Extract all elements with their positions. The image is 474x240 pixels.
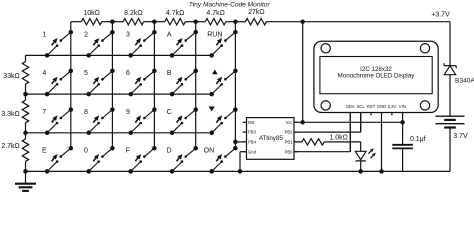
svg-text:GND: GND	[377, 104, 386, 109]
svg-text:A: A	[167, 32, 172, 39]
pin SCL	[357, 104, 366, 109]
pin Rst	[243, 120, 255, 125]
pin Vcc	[286, 120, 298, 125]
module OLED display outline	[314, 41, 438, 112]
wire SDA drop	[349, 113, 351, 152]
svg-text:3.3V: 3.3V	[388, 104, 397, 109]
node row3-left	[23, 131, 28, 136]
svg-text:Tiny Machine-Code Monitor: Tiny Machine-Code Monitor	[189, 2, 271, 9]
pushbutton 5	[84, 70, 112, 94]
pin VIN	[399, 104, 406, 109]
wire row 2	[26, 93, 212, 95]
led LED1	[355, 142, 376, 172]
node switch-row junction	[170, 53, 175, 58]
node switch-row junction	[86, 92, 91, 97]
node switch-column junction	[69, 146, 74, 151]
wire row 4 / ground bus	[26, 170, 451, 172]
pushbutton 0	[84, 148, 112, 172]
mounting hole	[321, 44, 330, 53]
wire column 2 vertical	[111, 22, 113, 149]
wire column 5 vertical	[234, 22, 236, 149]
svg-text:Monochrome OLED Display: Monochrome OLED Display	[338, 73, 416, 80]
node switch-row junction	[45, 131, 50, 136]
svg-text:SCL: SCL	[357, 104, 366, 109]
node switch-column junction	[193, 107, 198, 112]
node switch-column junction	[152, 146, 157, 151]
svg-text:6: 6	[126, 70, 130, 77]
node switch-row junction	[170, 92, 175, 97]
node Vcc junction	[300, 120, 305, 125]
resistor 27kΩ	[235, 9, 302, 25]
node switch-column junction	[69, 30, 74, 35]
pin PB2	[285, 130, 298, 135]
node switch-row junction	[45, 92, 50, 97]
svg-text:10kΩ: 10kΩ	[83, 10, 100, 17]
pushbutton RUN	[207, 32, 235, 56]
node row4-ground	[23, 169, 28, 174]
wire column 3 vertical	[153, 22, 155, 149]
title	[189, 2, 271, 9]
pin PB0	[285, 149, 298, 154]
node switch-column junction	[69, 69, 74, 74]
svg-text:8: 8	[84, 109, 88, 116]
node Vcc-rail junction	[300, 19, 305, 24]
svg-text:7: 7	[42, 109, 46, 116]
pushbutton 1	[42, 32, 70, 56]
svg-text:8.2kΩ: 8.2kΩ	[124, 10, 142, 17]
pushbutton 7	[42, 109, 70, 133]
resistor 33kΩ row ladder	[3, 55, 28, 94]
pushbutton 9	[126, 109, 154, 133]
svg-text:Vcc: Vcc	[286, 120, 293, 125]
node switch-row junction	[209, 92, 214, 97]
wire column 4 vertical	[195, 22, 197, 149]
node switch-row junction	[170, 169, 175, 174]
resistor 1.0kΩ R8	[294, 134, 361, 145]
svg-text:33kΩ: 33kΩ	[3, 73, 20, 80]
svg-text:5: 5	[84, 70, 88, 77]
node switch-column junction	[110, 146, 115, 151]
svg-text:3.7V: 3.7V	[453, 133, 468, 140]
svg-text:4.7kΩ: 4.7kΩ	[206, 10, 224, 17]
pushbutton E	[42, 148, 71, 172]
node switch-row junction	[86, 53, 91, 58]
svg-text:1: 1	[42, 32, 46, 39]
wire Vcc riser	[302, 22, 304, 123]
svg-text:B340A: B340A	[455, 78, 474, 85]
node top-bus junction	[193, 19, 198, 24]
node switch-column junction	[69, 107, 74, 112]
pin RST stub	[370, 113, 372, 116]
node switch-row junction	[86, 169, 91, 174]
pin PB3	[243, 130, 257, 135]
pushbutton C	[167, 109, 196, 133]
pin PB1	[285, 140, 298, 145]
svg-text:PB0: PB0	[285, 149, 294, 154]
node switch-row junction	[170, 131, 175, 136]
wire PB4 to keypad	[235, 141, 246, 143]
wire Gnd down	[240, 152, 247, 172]
svg-text:C: C	[167, 109, 172, 116]
pin 3.3V stub	[391, 113, 393, 116]
svg-text:2: 2	[84, 32, 88, 39]
node top-bus junction	[110, 19, 115, 24]
resistor 3.3kΩ row ladder	[1, 94, 28, 133]
svg-text:Rst: Rst	[248, 120, 255, 125]
pushbutton B	[167, 70, 196, 94]
svg-text:E: E	[42, 148, 47, 155]
svg-text:ON: ON	[204, 148, 215, 155]
node switch-column junction	[152, 69, 157, 74]
node top-bus junction	[233, 19, 238, 24]
svg-text:1.0kΩ: 1.0kΩ	[329, 134, 347, 141]
pushbutton A	[167, 32, 196, 56]
node GND-bus junction	[379, 169, 384, 174]
battery 3.7V BT1	[436, 116, 469, 171]
pushbutton up-arrow	[212, 70, 236, 95]
pin GND	[377, 104, 386, 109]
node switch-column junction	[233, 30, 238, 35]
node VIN junction	[400, 120, 405, 125]
label I2C 128x32	[360, 66, 392, 73]
node top-bus junction	[152, 19, 157, 24]
node switch-column junction	[110, 69, 115, 74]
capacitor 0.1μf	[392, 122, 425, 171]
svg-text:VIN: VIN	[399, 104, 406, 109]
svg-text:9: 9	[126, 109, 130, 116]
node switch-row junction	[45, 53, 50, 58]
pushbutton D	[167, 148, 196, 172]
wire row 1	[26, 54, 212, 56]
node switch-column junction	[110, 30, 115, 35]
wire +3.7V rail	[303, 21, 450, 23]
svg-text:27kΩ: 27kΩ	[248, 9, 265, 16]
node switch-row junction	[128, 53, 133, 58]
wire Vcc to VIN	[294, 121, 403, 123]
ground	[15, 171, 36, 191]
pushbutton down-arrow	[209, 107, 236, 133]
pushbutton 4	[42, 70, 70, 94]
wire column 1 vertical	[70, 22, 72, 149]
pin RST	[367, 104, 376, 109]
node switch-column junction	[233, 69, 238, 74]
pin PB4	[243, 140, 257, 145]
label Monochrome OLED Display	[338, 73, 416, 80]
svg-text:ATtiny85: ATtiny85	[259, 135, 284, 142]
node switch-row junction	[209, 53, 214, 58]
pushbutton ON	[204, 148, 236, 172]
resistor 8.2kΩ (top bus segment 2)	[112, 10, 154, 25]
svg-text:B: B	[167, 70, 172, 77]
pushbutton 6	[126, 70, 154, 94]
svg-text:Gnd: Gnd	[248, 149, 257, 154]
svg-text:RUN: RUN	[207, 32, 222, 39]
svg-text:D: D	[167, 148, 172, 155]
node LED-bus junction	[358, 169, 363, 174]
node switch-column junction	[233, 146, 238, 151]
node switch-row junction	[86, 131, 91, 136]
pushbutton F	[126, 148, 155, 172]
svg-text:PB2: PB2	[285, 130, 294, 135]
node Gnd-bus junction	[238, 169, 243, 174]
node switch-column junction	[193, 69, 198, 74]
svg-text:4: 4	[42, 70, 46, 77]
diode B340A D1	[444, 22, 474, 117]
pushbutton 3	[126, 32, 154, 56]
wire GND drop	[381, 113, 383, 172]
pushbutton 2	[84, 32, 112, 56]
svg-text:SDA: SDA	[346, 104, 355, 109]
pin 3.3V	[388, 104, 397, 109]
ic ATtiny85 U1	[247, 118, 295, 160]
node switch-row junction	[45, 169, 50, 174]
node switch-column junction	[193, 146, 198, 151]
label +3.7V	[431, 12, 450, 19]
node switch-column junction	[193, 30, 198, 35]
svg-text:4.7kΩ: 4.7kΩ	[166, 10, 184, 17]
resistor 10kΩ (top bus segment 1)	[71, 10, 113, 25]
wire PB0 to SDA	[294, 113, 350, 152]
svg-text:0.1μf: 0.1μf	[410, 136, 426, 143]
svg-text:RST: RST	[367, 104, 376, 109]
svg-text:F: F	[126, 148, 130, 155]
mounting hole	[321, 101, 330, 110]
resistor 4.7kΩ (top bus segment 3)	[154, 10, 195, 25]
wire PB2 to SCL	[294, 113, 361, 133]
mounting hole	[420, 44, 429, 53]
svg-text:3: 3	[126, 32, 130, 39]
pin SDA	[346, 104, 355, 109]
pushbutton 8	[84, 109, 112, 133]
wire VIN drop	[402, 113, 404, 123]
svg-text:3.3kΩ: 3.3kΩ	[1, 111, 19, 118]
node switch-row junction	[209, 169, 214, 174]
resistor 2.7kΩ row ladder	[1, 133, 28, 172]
svg-text:2.7kΩ: 2.7kΩ	[1, 143, 19, 150]
pin Gnd	[243, 149, 257, 154]
node PB4-column junction	[233, 140, 238, 145]
svg-text:PB1: PB1	[285, 140, 294, 145]
display area	[320, 57, 432, 94]
svg-text:PB3: PB3	[248, 130, 257, 135]
node row2-left	[23, 92, 28, 97]
node switch-column junction	[152, 30, 157, 35]
svg-text:PB4: PB4	[248, 140, 257, 145]
node switch-column junction	[110, 107, 115, 112]
svg-text:0: 0	[84, 148, 88, 155]
node switch-column junction	[152, 107, 157, 112]
node switch-row junction	[209, 131, 214, 136]
wire SCL drop	[360, 113, 362, 133]
mounting hole	[420, 101, 429, 110]
resistor 4.7kΩ (top bus segment 4)	[196, 10, 236, 25]
node switch-column junction	[233, 107, 238, 112]
node switch-row junction	[128, 92, 133, 97]
node switch-row junction	[128, 169, 133, 174]
node switch-row junction	[128, 131, 133, 136]
svg-text:+3.7V: +3.7V	[431, 12, 450, 19]
wire row 3	[26, 132, 212, 134]
